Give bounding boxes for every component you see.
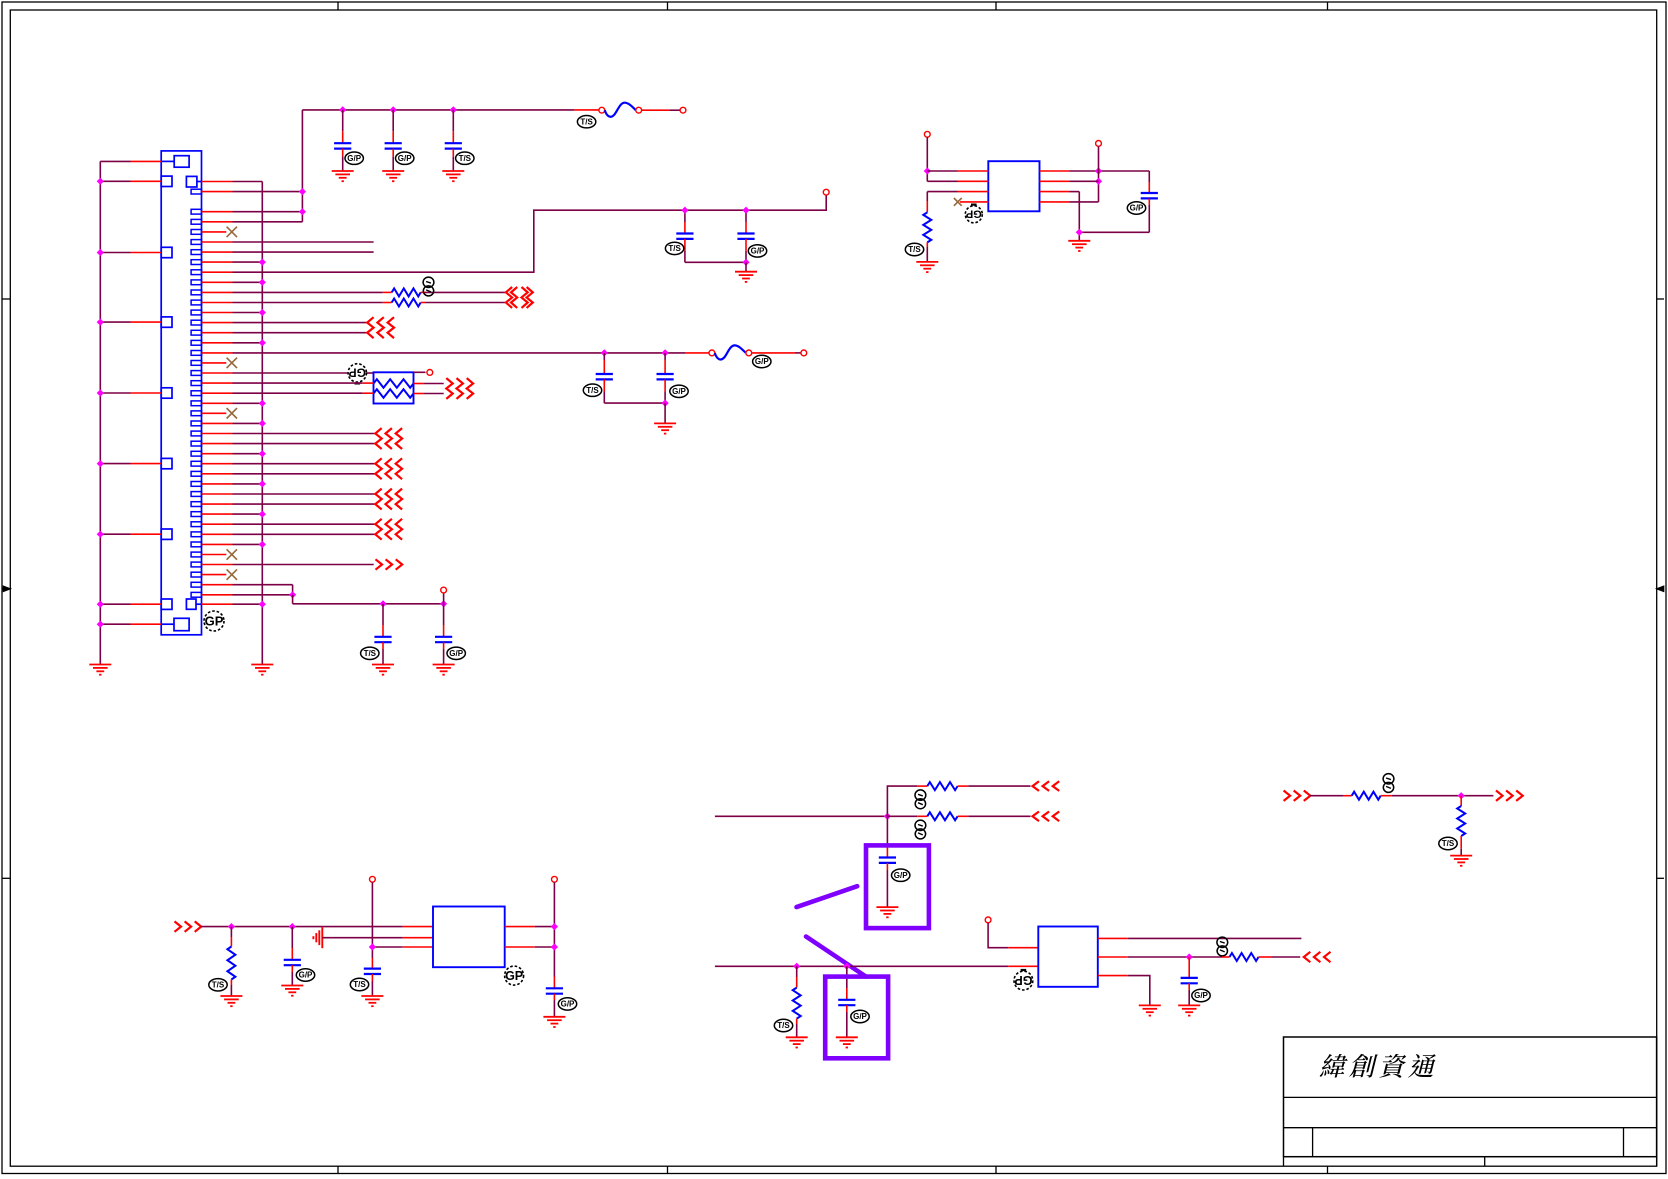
wire U1 pin3L xyxy=(927,191,957,193)
wire left pin y=624.2 xyxy=(100,623,130,625)
junction xyxy=(259,339,266,346)
junction xyxy=(259,279,266,286)
capacitor C8 xyxy=(382,604,384,625)
capacitor C2 xyxy=(392,110,394,131)
capacitor C1 xyxy=(342,110,344,131)
vcc bus x=302 vertical xyxy=(301,110,303,222)
IC U4 body xyxy=(1038,927,1098,987)
svg-text:T/S: T/S xyxy=(777,1021,790,1030)
wire pin8 to gnd bus xyxy=(202,261,233,263)
junction xyxy=(1458,792,1465,799)
U1 pin4L no-connect xyxy=(960,201,988,203)
wire pin k=38 out xyxy=(202,564,233,566)
connector J1 top-right big pad xyxy=(186,176,197,187)
junction xyxy=(259,258,266,265)
ground xyxy=(1139,1004,1161,1006)
svg-text:T/S: T/S xyxy=(668,244,681,253)
wire U4 pin2R xyxy=(1098,956,1128,958)
connector J1 bottom-right big pad xyxy=(186,599,196,609)
terminal circle xyxy=(823,189,829,195)
resistor R5 xyxy=(927,812,957,820)
terminal circle xyxy=(680,107,686,113)
wire pin30 to gnd bus xyxy=(202,483,233,485)
port out chevrons right net xyxy=(1496,791,1503,801)
junction xyxy=(299,188,306,195)
wire bus to ferrite xyxy=(574,109,599,111)
junction xyxy=(369,943,376,950)
connector J1 right pin 15 xyxy=(191,330,201,335)
svg-text:GP: GP xyxy=(966,207,982,219)
wire pin k=28 xyxy=(202,463,233,465)
wire U1 pin4R xyxy=(1040,201,1070,203)
resistor R11 xyxy=(392,288,421,296)
wire U4 pin1R xyxy=(1098,937,1128,939)
ground xyxy=(1178,1004,1200,1006)
ground xyxy=(1450,855,1472,857)
junction xyxy=(289,591,296,598)
wire pin k=9 net to caps row xyxy=(202,271,233,273)
wire ferrite out xyxy=(642,109,670,111)
port in chevrons rows 31/32 xyxy=(375,489,381,510)
connector J1 right pin 6 xyxy=(191,240,201,245)
capacitor C4 xyxy=(684,210,686,222)
wire pin24 to gnd bus xyxy=(202,422,233,424)
ground left bus xyxy=(89,664,111,666)
border mid-right arrow xyxy=(1657,586,1664,591)
wire pin k=4 xyxy=(202,221,233,223)
connector J1 left pin at y=534.2 xyxy=(161,529,172,539)
port in chevrons row 786 xyxy=(1033,781,1040,791)
wire U1 pin1L xyxy=(927,170,957,172)
junction xyxy=(379,600,386,607)
connector J1 right pin 18 xyxy=(191,361,201,366)
capacitor C9 xyxy=(443,604,445,625)
junction xyxy=(259,541,266,548)
label C11 xyxy=(296,969,314,981)
capacitor C14 (boxed) xyxy=(886,816,888,845)
svg-text:G/P: G/P xyxy=(398,154,412,163)
label C8 xyxy=(361,647,379,659)
wire vertical right xyxy=(553,882,555,976)
port in chevrons rows 322/333 xyxy=(367,317,373,338)
svg-text:GP: GP xyxy=(349,366,366,380)
connector J1 right pin 7 xyxy=(191,250,201,255)
label C7 xyxy=(670,385,688,397)
wire pin16 to gnd bus xyxy=(202,342,233,344)
svg-text:GP: GP xyxy=(505,969,523,983)
svg-text:T/S: T/S xyxy=(908,245,921,254)
connector J1 right pin 35 xyxy=(191,532,201,537)
connector J1 right pin 27 xyxy=(191,451,201,456)
wire RP1 top out xyxy=(414,371,426,373)
wire left pin y=463.6 xyxy=(100,463,130,465)
resistor R9 xyxy=(1460,796,1462,806)
ferrite terminal xyxy=(636,107,642,113)
wire pin k=3 xyxy=(202,211,233,213)
svg-text:GP: GP xyxy=(1014,973,1032,987)
svg-text:G/P: G/P xyxy=(751,247,765,256)
terminal circle xyxy=(1096,141,1102,147)
wire pin k=29 xyxy=(202,473,233,475)
svg-text:T/S: T/S xyxy=(459,154,472,163)
gnd bus vertical right xyxy=(261,182,263,665)
wire pin k=6 stub xyxy=(202,241,233,243)
connector J1 body xyxy=(161,151,201,635)
junction xyxy=(884,813,891,820)
label GP connector xyxy=(204,611,224,631)
terminal circle xyxy=(427,370,433,376)
wire row B xyxy=(715,965,1008,967)
connector J1 left pin at y=322.1 xyxy=(161,317,172,327)
connector J1 right pin 24 xyxy=(191,421,201,426)
connector J1 right pin 29 xyxy=(191,471,201,476)
connector J1 right pin 21 xyxy=(191,391,201,396)
junction xyxy=(1076,229,1083,236)
terminal circle xyxy=(801,350,807,356)
wire row A to resistor xyxy=(887,815,917,817)
label U1 GP xyxy=(965,206,982,223)
label R3 xyxy=(209,979,227,991)
junction xyxy=(97,601,104,608)
ground xyxy=(281,985,303,987)
wire U1 pin2R xyxy=(1040,180,1070,182)
connector J1 right pin 8 xyxy=(191,260,201,265)
ferrite bead FB2 terminal xyxy=(709,350,715,356)
connector J1 right pin 33 xyxy=(191,512,201,517)
label R6 xyxy=(774,1019,792,1031)
earth ground rotated (left) xyxy=(321,927,323,948)
capacitor C12 xyxy=(371,958,373,969)
terminal circle xyxy=(552,876,558,882)
junction xyxy=(1095,167,1102,174)
wire pin1R big to gnd bus xyxy=(202,181,233,183)
top power bus wire xyxy=(302,109,574,111)
svg-text:G/P: G/P xyxy=(1130,204,1144,213)
label RP1 (d5) xyxy=(348,364,366,382)
wire ferrite to terminal xyxy=(752,352,795,354)
ground xyxy=(543,1016,565,1018)
junction xyxy=(97,531,104,538)
connector J1 right pin 1 xyxy=(191,189,201,194)
label C12 xyxy=(350,978,368,990)
ferrite bead FB2 xyxy=(715,345,746,359)
connector J1 bottom-left big pad xyxy=(174,618,189,630)
wire pin k=19 to resistor pack xyxy=(202,372,233,374)
connector J1 right pin 41 xyxy=(191,592,201,597)
svg-text:T/S: T/S xyxy=(580,117,593,126)
label R7 xyxy=(1217,937,1228,947)
wire pin k=31 xyxy=(202,493,233,495)
resistor R12 xyxy=(392,299,421,307)
terminal circle top-left xyxy=(924,131,930,137)
wire pin33 to gnd bus xyxy=(202,513,233,515)
border mid-left arrow xyxy=(2,586,10,591)
svg-text:T/S: T/S xyxy=(353,980,366,989)
junction xyxy=(924,167,931,174)
wire left bus vertical xyxy=(99,161,101,664)
wire row A xyxy=(715,815,888,817)
wire top-left pin xyxy=(100,160,130,162)
port both-direction chevrons rows 292/302 xyxy=(506,287,512,308)
ferrite bead FB1 xyxy=(605,103,636,117)
junction xyxy=(259,420,266,427)
resistor R8 xyxy=(1352,792,1381,800)
resistor R6 xyxy=(796,966,798,977)
svg-text:T/S: T/S xyxy=(1442,839,1455,848)
connector J1 right pin 14 xyxy=(191,320,201,325)
junction xyxy=(97,249,104,256)
wire vcc vertical xyxy=(1098,146,1100,202)
connector J1 right pin 19 xyxy=(191,371,201,376)
connector J1 right pin 4 xyxy=(191,219,201,224)
ground xyxy=(836,1036,858,1038)
connector J1 right pin 36 xyxy=(191,542,201,547)
connector J1 left pin at y=393.0 xyxy=(161,388,172,398)
highlight box 2 xyxy=(825,977,888,1059)
label C1 xyxy=(345,152,363,164)
wire pin k=17 long net xyxy=(202,352,233,354)
junction xyxy=(339,106,346,113)
junction xyxy=(742,259,749,266)
wire pin k=11 to resistor xyxy=(202,291,233,293)
wire row3 xyxy=(372,946,402,948)
junction xyxy=(1186,953,1193,960)
junction xyxy=(259,601,266,608)
ground caps row xyxy=(735,271,757,273)
wire pin k=41 xyxy=(202,594,233,596)
resistor RP1a xyxy=(374,379,414,388)
wire pin k=14 xyxy=(202,322,233,324)
label C5 xyxy=(748,245,766,257)
wire pin k=7 stub xyxy=(202,251,233,253)
connector J1 right pin 20 xyxy=(191,381,201,386)
ground xyxy=(332,170,354,172)
resistor RP1b xyxy=(374,389,414,398)
junction xyxy=(97,178,104,185)
label R5 xyxy=(915,820,926,830)
no-connect pin18 xyxy=(202,362,227,364)
wire pin k=21 xyxy=(202,392,233,394)
connector J1 right pin 9 xyxy=(191,270,201,275)
ground xyxy=(382,170,404,172)
ground right bus xyxy=(251,664,273,666)
ground xyxy=(442,170,464,172)
resistor R4 xyxy=(927,782,957,790)
wire to ground xyxy=(745,262,747,271)
junction xyxy=(259,510,266,517)
wire cap bottoms tie xyxy=(685,261,746,263)
wire U1 pin3R xyxy=(1040,191,1070,193)
ground xyxy=(372,664,394,666)
wire pin22 to gnd bus xyxy=(202,402,233,404)
connector J1 right pin 32 xyxy=(191,502,201,507)
wire U4 pin3R xyxy=(1098,975,1128,977)
connector J1 right pin 26 xyxy=(191,441,201,446)
junction xyxy=(662,349,669,356)
svg-text:G/P: G/P xyxy=(1194,991,1208,1000)
port in chevrons row 957 xyxy=(1304,952,1311,962)
wire pin k=26 xyxy=(202,443,233,445)
wire RP1a out xyxy=(414,383,425,385)
connector J1 left pin at y=181.3 xyxy=(161,176,172,186)
connector J1 right pin 37 xyxy=(191,552,201,557)
wire pin k=20 xyxy=(202,382,233,384)
connector J1 right pin 23 xyxy=(191,411,201,416)
svg-text:G/P: G/P xyxy=(853,1012,867,1021)
ground xyxy=(433,664,455,666)
junction xyxy=(601,349,608,356)
wire pin k=35 xyxy=(202,533,233,535)
junction xyxy=(793,963,800,970)
capacitor C3 xyxy=(452,110,454,131)
connector J1 right pin 5 xyxy=(191,230,201,235)
junction xyxy=(299,208,306,215)
highlight box 1 xyxy=(866,845,929,928)
no-connect pin37 xyxy=(202,554,227,556)
wire row2 xyxy=(322,937,402,939)
label C15 xyxy=(851,1010,869,1022)
svg-text:G/P: G/P xyxy=(672,387,686,396)
wire left pin y=534.2 xyxy=(100,533,130,535)
connector J1 right pin 28 xyxy=(191,461,201,466)
ground xyxy=(1068,240,1090,242)
svg-text:G/P: G/P xyxy=(299,971,313,980)
ferrite terminal xyxy=(746,350,752,356)
junction xyxy=(97,318,104,325)
label R8 xyxy=(1383,774,1394,784)
wire to terminal xyxy=(443,593,445,604)
label C6 xyxy=(583,384,601,396)
resistor R7 xyxy=(1222,956,1230,958)
wire pin27 to gnd bus xyxy=(202,453,233,455)
wire left pin y=604.2 xyxy=(100,603,130,605)
junction xyxy=(681,207,688,214)
svg-text:G/P: G/P xyxy=(894,871,908,880)
ground xyxy=(361,995,383,997)
connector J1 right pin 34 xyxy=(191,522,201,527)
resistor R3 xyxy=(230,927,232,937)
port in chevrons row 816 xyxy=(1033,812,1040,822)
capacitor C6 xyxy=(603,353,605,360)
wire vertical from terminal xyxy=(371,882,373,958)
wire in xyxy=(1310,795,1343,797)
wire from terminal xyxy=(926,137,928,181)
ground xyxy=(916,261,938,263)
no-connect pin23 xyxy=(202,412,227,414)
capacitor C15 (boxed) xyxy=(846,966,848,988)
wire up branch xyxy=(887,786,917,816)
port in chevrons rows 25/26 xyxy=(375,428,381,449)
junction xyxy=(450,106,457,113)
svg-text:T/S: T/S xyxy=(364,649,377,658)
capacitor C11 xyxy=(291,927,293,948)
wire pin k=12 to resistor xyxy=(202,302,233,304)
connector J1 right pin 3 xyxy=(191,209,201,214)
ground xyxy=(786,1036,808,1038)
wire down to row 604 xyxy=(292,595,294,604)
junction xyxy=(1095,178,1102,185)
wire cap bottoms tie xyxy=(604,402,665,404)
connector J1 left pin at y=252.5 xyxy=(161,247,172,257)
connector J1 right pin 39 xyxy=(191,572,201,577)
junction xyxy=(97,621,104,628)
wire pin k=25 xyxy=(202,433,233,435)
label R11/R12 xyxy=(423,277,434,287)
wire pin36 to gnd bus xyxy=(202,543,233,545)
capacitor C5 xyxy=(745,210,747,222)
connector J1 pin 1 pad (top-left big) xyxy=(174,156,189,168)
wire pin k=40 xyxy=(202,584,233,586)
svg-text:G/P: G/P xyxy=(449,649,463,658)
connector J1 right pin 16 xyxy=(191,340,201,345)
label FB2 xyxy=(753,355,771,367)
port in chevrons right net xyxy=(1284,791,1291,801)
resistor pack RP1 box xyxy=(374,372,414,403)
wire main row xyxy=(201,926,403,928)
label C13 xyxy=(558,998,576,1010)
label R9 xyxy=(1439,837,1457,849)
wire U3 pin1R xyxy=(505,926,535,928)
title text Wistron (緯創資通) xyxy=(1319,1054,1349,1078)
wire pin13 to gnd bus xyxy=(202,312,233,314)
junction xyxy=(97,389,104,396)
wire left pin y=252.5 xyxy=(100,252,130,254)
label R1 xyxy=(905,243,923,255)
wire pin k=34 xyxy=(202,523,233,525)
connector J1 right pin 13 xyxy=(191,310,201,315)
ground xyxy=(220,995,242,997)
terminal circle xyxy=(441,587,447,593)
wire left pin y=393.0 xyxy=(100,392,130,394)
svg-text:T/S: T/S xyxy=(586,386,599,395)
terminal circle xyxy=(370,876,376,882)
port out chevrons RP1 xyxy=(446,378,452,399)
port in chevrons bottom-left xyxy=(175,921,182,931)
svg-text:G/P: G/P xyxy=(561,1000,575,1009)
label C3 xyxy=(456,152,474,164)
junction xyxy=(259,450,266,457)
label C9 xyxy=(447,647,465,659)
annotation line 1 xyxy=(797,886,858,907)
port out chevrons row 564 xyxy=(376,559,383,569)
wire pin k=15 xyxy=(202,332,233,334)
connector J1 left pin at y=463.6 xyxy=(161,458,172,468)
connector J1 right pin 40 xyxy=(191,582,201,587)
wire left pin y=181.3 xyxy=(100,180,130,182)
no-connect pin39 xyxy=(202,574,227,576)
svg-text:G/P: G/P xyxy=(755,357,769,366)
junction xyxy=(551,943,558,950)
terminal circle xyxy=(985,917,991,923)
wire bottom-right big pin to gnd bus xyxy=(202,603,233,605)
svg-text:GP: GP xyxy=(205,614,224,629)
connector J1 left pin at y=604.2 xyxy=(161,599,172,609)
connector J1 right pin 22 xyxy=(191,401,201,406)
junction xyxy=(551,923,558,930)
port in chevrons rows 28/29 xyxy=(375,458,381,479)
connector J1 right pin 38 xyxy=(191,562,201,567)
connector J1 right pin 25 xyxy=(191,431,201,436)
label U3 GP xyxy=(505,966,524,985)
junction xyxy=(97,460,104,467)
label R4 xyxy=(915,790,926,800)
wire pin10 to gnd bus xyxy=(202,281,233,283)
capacitor C10 xyxy=(1148,171,1150,182)
wire pin1 (k=1) xyxy=(202,191,233,193)
title block xyxy=(1284,1037,1657,1157)
wire pin k=32 xyxy=(202,503,233,505)
label C14 xyxy=(892,869,910,881)
